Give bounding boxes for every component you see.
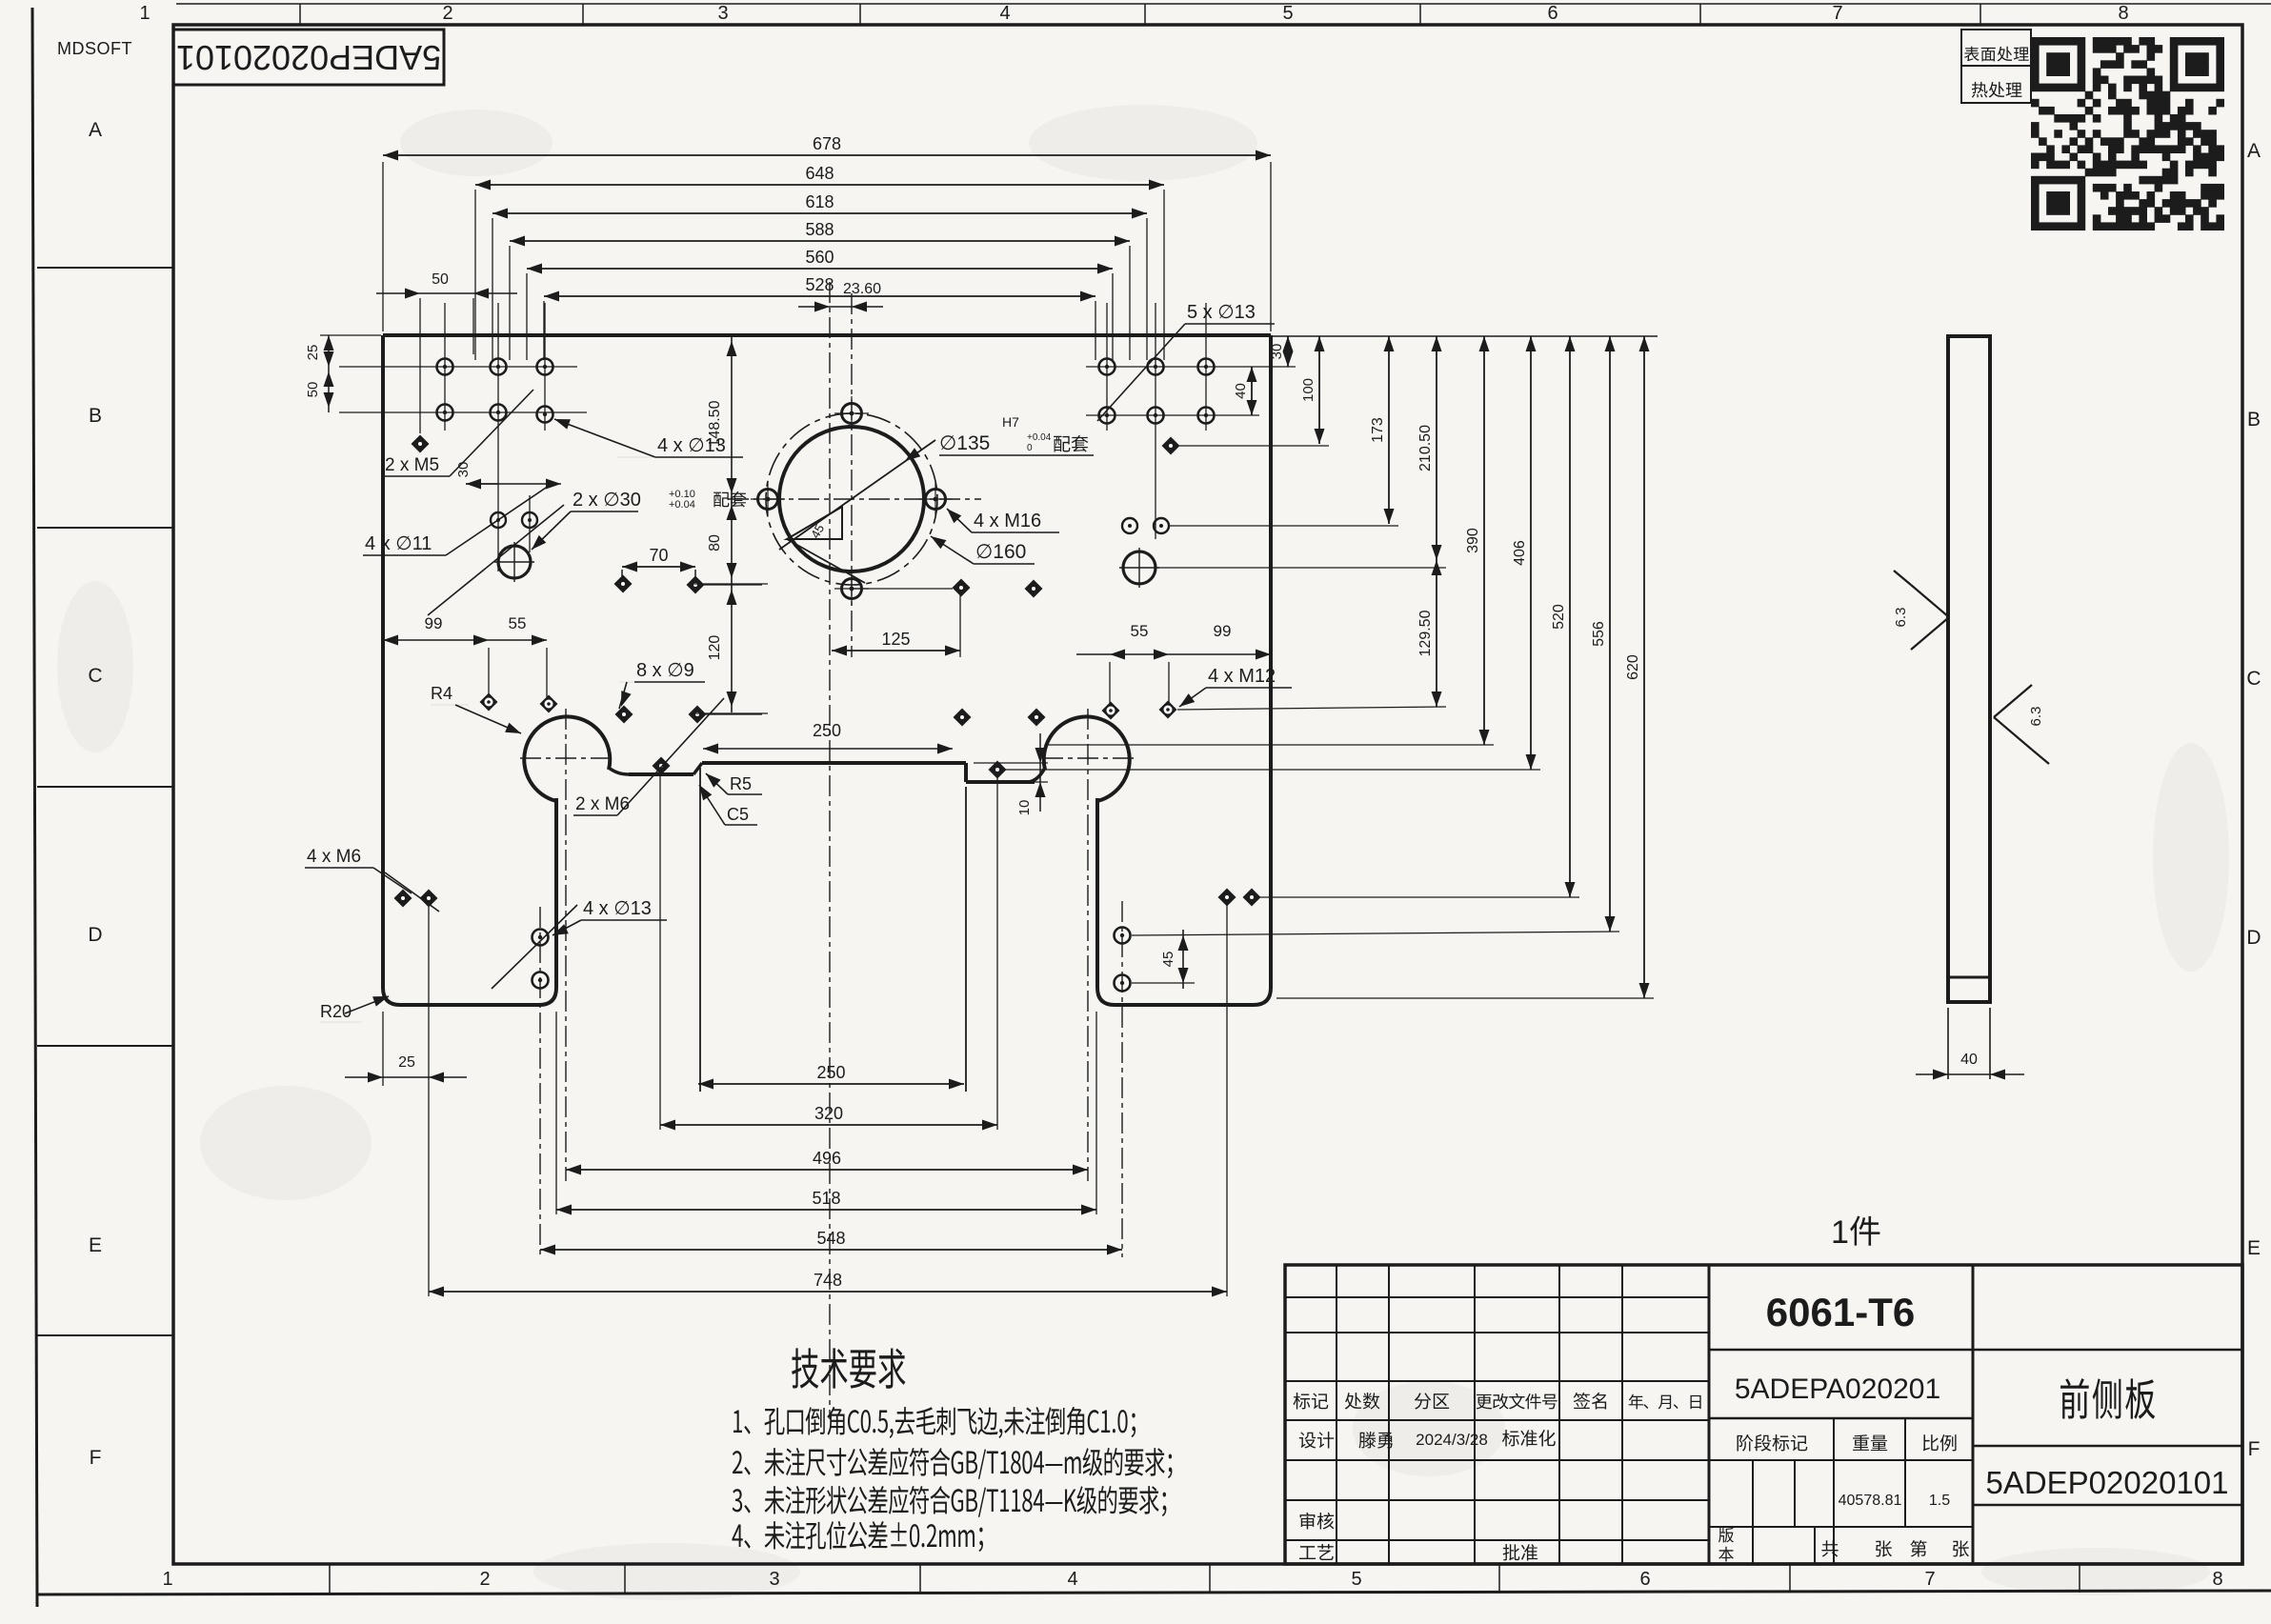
- svg-text:4 x M6: 4 x M6: [307, 847, 361, 867]
- top edge extension line to right dims: [1271, 335, 1658, 337]
- dimension 556: [1609, 336, 1611, 932]
- D9 holes upper pair right: [953, 579, 971, 597]
- dimension 50 left edge: [328, 367, 330, 412]
- svg-text:4 x ∅13: 4 x ∅13: [583, 898, 652, 919]
- dimension 173: [1388, 336, 1390, 524]
- svg-text:3: 3: [769, 1569, 779, 1590]
- svg-text:23.60: 23.60: [843, 281, 881, 297]
- 45 dim right foot: [1182, 930, 1184, 989]
- left lobe R45: [524, 716, 610, 801]
- svg-text:5ADEP02020101: 5ADEP02020101: [1985, 1465, 2228, 1500]
- row 审核: [1300, 1513, 1335, 1530]
- surface treatment label box: [1961, 30, 2031, 66]
- D11 holes right: [1122, 518, 1137, 533]
- 30 dim above D11: [497, 533, 499, 571]
- 13mm holes top-right: [1099, 359, 1115, 375]
- svg-text:100: 100: [1300, 378, 1316, 402]
- dimension 30 right: [1287, 336, 1289, 367]
- M16 hole bottom: [842, 579, 862, 599]
- svg-text:4 x M12: 4 x M12: [1208, 666, 1276, 687]
- svg-text:D: D: [88, 924, 102, 946]
- dimension 518: [555, 1012, 557, 1214]
- svg-text:0: 0: [1027, 443, 1033, 453]
- M5 diamond right: [1162, 437, 1180, 455]
- left margin zone dividers: [37, 267, 173, 269]
- dimension 250 bottom: [698, 1083, 964, 1085]
- svg-text:250: 250: [813, 721, 841, 740]
- svg-text:R5: R5: [730, 774, 752, 793]
- svg-text:518: 518: [812, 1189, 840, 1208]
- svg-text:4 x ∅11: 4 x ∅11: [365, 533, 432, 554]
- circle vertical centerline: [851, 293, 853, 657]
- right lobe R45: [1044, 716, 1130, 801]
- svg-text:8: 8: [2118, 3, 2128, 24]
- svg-text:E: E: [89, 1234, 102, 1256]
- svg-text:7: 7: [1924, 1569, 1935, 1590]
- svg-text:406: 406: [1512, 540, 1528, 566]
- D9 holes lower pair left: [615, 706, 633, 724]
- svg-text:55: 55: [1131, 622, 1149, 640]
- feet holes right: [1115, 928, 1131, 944]
- left table horizontals: [1285, 1296, 1709, 1298]
- dimension 125: [959, 594, 961, 657]
- header 分区: [1415, 1393, 1449, 1409]
- svg-text:125: 125: [881, 630, 910, 649]
- tech req line 3: [733, 1486, 1167, 1517]
- hole row lines top-right: [1086, 366, 1296, 368]
- svg-text:A: A: [2247, 140, 2261, 162]
- svg-text:99: 99: [425, 614, 443, 632]
- 10 step dim: [974, 762, 1048, 764]
- M16 hole right: [926, 490, 946, 510]
- bore circle D135: [779, 427, 924, 571]
- hole row lines top-left: [339, 366, 577, 368]
- dimension 129.50: [1436, 560, 1437, 707]
- tech req line 2: [733, 1448, 1173, 1479]
- svg-text:40578.81: 40578.81: [1839, 1493, 1902, 1509]
- dimension 40 right: [1251, 367, 1253, 415]
- dimension 548: [540, 1249, 1122, 1251]
- dimension 520: [1569, 336, 1571, 897]
- material 6061-T6: [1709, 1349, 1973, 1352]
- dimension 406: [1530, 336, 1532, 770]
- header 标记: [1293, 1393, 1328, 1409]
- svg-text:1: 1: [139, 3, 150, 24]
- dimension 25 bottom left: [382, 1012, 384, 1086]
- dimension 40 side view: [1947, 1008, 1949, 1079]
- svg-text:50: 50: [432, 271, 449, 288]
- tech req line 4: [732, 1521, 983, 1552]
- right foot hole centerline: [1121, 901, 1123, 1257]
- svg-text:MDSOFT: MDSOFT: [57, 39, 132, 58]
- svg-text:6: 6: [1639, 1569, 1650, 1590]
- dimension 55 99 right: [1109, 662, 1111, 705]
- D9 holes lower pair right: [954, 709, 972, 727]
- title block section dividers: [1708, 1265, 1711, 1564]
- svg-text:10: 10: [1016, 800, 1033, 816]
- svg-text:D: D: [2246, 927, 2261, 949]
- svg-text:748: 748: [814, 1271, 842, 1290]
- row 工艺: [1299, 1544, 1334, 1560]
- row 设计: [1299, 1432, 1334, 1448]
- svg-text:F: F: [2248, 1438, 2261, 1460]
- svg-text:40: 40: [1960, 1052, 1978, 1068]
- svg-text:5ADEPA020201: 5ADEPA020201: [1735, 1373, 1940, 1405]
- svg-text:2 x M5: 2 x M5: [385, 455, 439, 475]
- dimension 588: [510, 240, 1130, 242]
- dimension 390: [1483, 336, 1485, 745]
- svg-text:4 x M16: 4 x M16: [974, 511, 1041, 531]
- D9 holes upper pair left: [614, 575, 633, 593]
- svg-text:4: 4: [1067, 1569, 1077, 1590]
- bolt circle D160: [766, 413, 937, 585]
- heat treatment label box: [1961, 66, 2031, 103]
- svg-text:588: 588: [805, 220, 834, 239]
- svg-text:120: 120: [707, 635, 723, 661]
- paper edge lines: [176, 3, 2271, 5]
- 共张第张: [1821, 1540, 1838, 1556]
- dimension 100 right: [1318, 336, 1320, 444]
- svg-text:C: C: [88, 665, 102, 687]
- svg-text:129.50: 129.50: [1417, 610, 1434, 656]
- svg-text:620: 620: [1625, 654, 1641, 680]
- svg-text:173: 173: [1370, 417, 1386, 443]
- right lobe centerlines: [1087, 709, 1089, 1181]
- dimension 648: [475, 184, 1164, 186]
- svg-text:6: 6: [1547, 3, 1558, 24]
- svg-text:390: 390: [1465, 528, 1481, 553]
- left lobe centerlines: [565, 709, 567, 1181]
- side view plate section: [1948, 336, 1990, 1002]
- dimension 23.60: [829, 286, 831, 324]
- svg-text:F: F: [90, 1447, 102, 1469]
- svg-text:C5: C5: [727, 805, 749, 824]
- M12 holes right: [1102, 702, 1120, 720]
- svg-text:30: 30: [455, 462, 472, 478]
- svg-text:1.5: 1.5: [1929, 1493, 1950, 1509]
- leader diagonal through D30: [428, 505, 564, 615]
- svg-text:6.3: 6.3: [2028, 707, 2044, 727]
- svg-text:45: 45: [1160, 952, 1176, 968]
- dimension 620: [1643, 336, 1645, 998]
- bottom zone ticks: [329, 1564, 331, 1593]
- svg-text:2 x ∅30: 2 x ∅30: [573, 490, 641, 511]
- M12 holes left: [480, 693, 498, 712]
- svg-text:548: 548: [816, 1229, 845, 1248]
- svg-text:R20: R20: [320, 1002, 352, 1021]
- svg-text:4: 4: [999, 3, 1010, 24]
- svg-text:1: 1: [162, 1569, 172, 1590]
- part code 5ADEPA020201: [1709, 1417, 1973, 1420]
- 120 dim vertical: [731, 335, 733, 712]
- svg-text:618: 618: [805, 192, 834, 211]
- svg-text:A: A: [89, 119, 102, 141]
- svg-text:25: 25: [305, 345, 321, 361]
- svg-text:30: 30: [1269, 344, 1285, 360]
- svg-text:6061-T6: 6061-T6: [1766, 1290, 1915, 1334]
- svg-text:25: 25: [398, 1054, 415, 1071]
- M6 diamonds bottom left: [394, 890, 412, 908]
- M6 diamonds bottom right: [1218, 889, 1236, 907]
- dimension 99 55 left: [382, 610, 384, 667]
- svg-text:8: 8: [2212, 1569, 2222, 1590]
- dimension 618: [492, 212, 1147, 214]
- top zone ticks: [299, 4, 301, 25]
- svg-text:5: 5: [1282, 3, 1293, 24]
- svg-text:556: 556: [1591, 621, 1607, 647]
- feet holes left: [533, 930, 549, 946]
- tech req line 1: [734, 1407, 1135, 1438]
- svg-text:R4: R4: [431, 684, 452, 703]
- header 处数: [1345, 1393, 1380, 1410]
- svg-text:2: 2: [442, 3, 452, 24]
- technical requirements title: [792, 1348, 905, 1388]
- dimension 678: [383, 154, 1271, 156]
- dimension 210.50: [1436, 336, 1437, 560]
- svg-text:B: B: [2247, 409, 2261, 431]
- svg-text:2: 2: [479, 1569, 490, 1590]
- surface roughness symbol 6.3: [1911, 585, 1949, 617]
- right dim leaders: [1048, 744, 1494, 746]
- QR code: [2031, 37, 2224, 231]
- svg-text:70: 70: [649, 546, 668, 565]
- svg-text:40: 40: [1233, 383, 1249, 399]
- right section rows: [1973, 1349, 2242, 1352]
- header 年、月、日: [1629, 1394, 1701, 1410]
- header 签名: [1574, 1393, 1606, 1410]
- svg-text:320: 320: [814, 1104, 843, 1123]
- diagonal diameter leader: [779, 440, 935, 550]
- dimension 528: [544, 295, 1095, 297]
- M16 hole left: [758, 490, 778, 510]
- 版本 cell: [1814, 1527, 1816, 1565]
- weight and scale values: [1709, 1526, 1973, 1528]
- svg-text:148.50: 148.50: [707, 400, 723, 447]
- 70 dim: [621, 570, 623, 577]
- rotated part number box 5ADEP02020101: [173, 30, 444, 85]
- svg-text:+0.04: +0.04: [669, 499, 695, 511]
- plate outline: [383, 333, 1271, 337]
- svg-text:5 x ∅13: 5 x ∅13: [1187, 302, 1256, 323]
- svg-text:2024/3/28: 2024/3/28: [1416, 1431, 1488, 1449]
- svg-text:55: 55: [509, 614, 527, 632]
- svg-text:5: 5: [1351, 1569, 1361, 1590]
- dimension 250 upper: [703, 748, 953, 750]
- svg-text:8 x ∅9: 8 x ∅9: [636, 660, 694, 681]
- part name 前侧板: [2060, 1378, 2155, 1419]
- svg-text:648: 648: [805, 164, 834, 183]
- svg-text:520: 520: [1551, 604, 1567, 630]
- dimension 320: [659, 773, 661, 1130]
- svg-text:∅160: ∅160: [975, 541, 1026, 563]
- svg-text:6.3: 6.3: [1893, 608, 1909, 628]
- title block outer: [1285, 1265, 2242, 1564]
- dimension 560: [527, 268, 1113, 270]
- svg-text:E: E: [2247, 1237, 2261, 1259]
- header 更改文件号: [1477, 1393, 1558, 1410]
- surface roughness symbol 1.6: [1994, 685, 2032, 717]
- svg-text:560: 560: [805, 248, 834, 267]
- dimension 50 top left: [419, 298, 421, 433]
- svg-text:+0.04: +0.04: [1027, 432, 1052, 443]
- svg-text:H7: H7: [1002, 414, 1019, 430]
- svg-text:50: 50: [305, 382, 321, 398]
- M16 hole top: [842, 404, 862, 424]
- 阶段标记 重量 比例 headers: [1709, 1459, 1973, 1461]
- left table verticals: [1336, 1265, 1337, 1564]
- svg-text:250: 250: [816, 1063, 845, 1082]
- M5 diamond left: [412, 435, 430, 453]
- svg-text:80: 80: [707, 534, 723, 551]
- datum slope symbol 45: [787, 507, 842, 539]
- svg-text:5ADEP02020101: 5ADEP02020101: [176, 38, 441, 77]
- dimension 748: [428, 907, 430, 1296]
- D11 holes left: [491, 512, 506, 528]
- svg-text:210.50: 210.50: [1417, 425, 1434, 471]
- left foot hole centerline: [539, 907, 541, 1257]
- 13mm holes top-left: [437, 359, 453, 375]
- notch wall extension right: [965, 787, 967, 1092]
- svg-text:B: B: [89, 405, 102, 427]
- circle horizontal centerline: [728, 498, 981, 500]
- plate vertical centerline: [829, 282, 831, 1419]
- 2 x M6 diamonds on ledges: [653, 757, 671, 775]
- svg-text:496: 496: [813, 1149, 841, 1168]
- dimension 25 left edge: [320, 334, 381, 336]
- svg-text:1: 1: [1831, 1214, 1849, 1251]
- svg-text:7: 7: [1832, 3, 1842, 24]
- svg-text:3: 3: [717, 3, 728, 24]
- dimension 496: [566, 1169, 1088, 1171]
- svg-text:678: 678: [813, 134, 841, 153]
- svg-text:99: 99: [1214, 622, 1232, 640]
- D30 hole right: [1123, 551, 1156, 584]
- top dimension extension lines: [474, 190, 476, 360]
- D30 hole left: [498, 546, 531, 578]
- notch wall extension left: [699, 768, 701, 1092]
- svg-text:∅135: ∅135: [939, 432, 990, 454]
- svg-text:C: C: [2246, 668, 2261, 690]
